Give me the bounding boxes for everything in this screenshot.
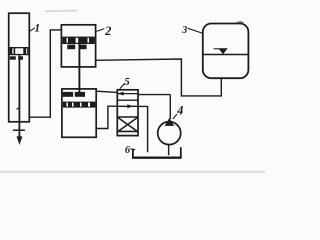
svg-text:2: 2 [104, 24, 111, 38]
valve row2 right flow arrow [118, 104, 137, 108]
piston of cylinder C1 [10, 47, 29, 60]
wire lower cylinder top port to valve row1 [96, 91, 117, 92]
intensifier lower cylinder body [62, 89, 96, 137]
wire pump outlet riser [169, 95, 171, 119]
scan smudge artifact top [45, 10, 77, 13]
rod crossbar [13, 129, 25, 131]
label 2 [97, 24, 112, 38]
piston of upper cylinder [62, 37, 95, 50]
piston seal band of lower cylinder [63, 102, 96, 108]
svg-text:3: 3 [181, 25, 187, 36]
wire valve row1 to pump riser [138, 94, 170, 96]
intensifier upper cylinder body [61, 25, 95, 67]
valve V5 body [117, 90, 138, 136]
force arrow on rod [17, 136, 23, 145]
common rod of intensifier [78, 44, 80, 93]
scan shadow at bottom edge [0, 171, 265, 173]
wire cylinder C1 to intensifier upper port [29, 30, 61, 117]
svg-text:6: 6 [125, 145, 131, 156]
label 1 [30, 22, 40, 34]
scan speck on accumulator top [237, 22, 244, 23]
piston rod of cylinder C1 [17, 55, 20, 137]
wire lower cylinder bottom port to valve row2 [96, 106, 117, 128]
accumulator A3 body [203, 24, 249, 79]
wire upper cylinder port to accumulator [96, 59, 222, 96]
label 5 [120, 76, 130, 89]
svg-text:4: 4 [176, 104, 183, 118]
label 3 [181, 25, 203, 36]
cylinder C1 body [9, 13, 30, 122]
wire pump suction to tank [168, 145, 170, 156]
pump P4 [158, 118, 181, 145]
svg-text:1: 1 [34, 22, 40, 34]
tank T6 [132, 147, 181, 157]
label 4 [173, 104, 183, 119]
valve closed-position X cell [118, 118, 137, 131]
wire valve row2 to tank drain [138, 106, 148, 152]
valve row1 left flow arrow [118, 92, 138, 96]
label 6 [125, 145, 135, 156]
piston head of lower cylinder [63, 92, 85, 97]
svg-text:5: 5 [124, 76, 130, 88]
fluid level mark of accumulator [214, 48, 228, 54]
